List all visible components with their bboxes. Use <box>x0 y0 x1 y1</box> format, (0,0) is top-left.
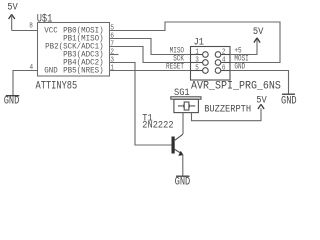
svg-text:GND: GND <box>4 95 20 107</box>
svg-text:BUZZERPTH: BUZZERPTH <box>204 103 251 115</box>
svg-text:3: 3 <box>195 56 199 63</box>
svg-text:4: 4 <box>222 56 226 63</box>
svg-text:5V: 5V <box>253 25 264 37</box>
power 5V top-left <box>7 1 18 31</box>
wire GND right: J1 pin6 to ground <box>230 71 289 94</box>
ground right <box>281 94 297 107</box>
wire buzzer right pin to 5V <box>192 108 262 120</box>
J1 pad 4 <box>215 56 230 65</box>
svg-text:U$1: U$1 <box>37 13 53 25</box>
svg-text:4: 4 <box>30 64 34 71</box>
wire RESET net: pin1 to J1 pin5 <box>110 70 191 72</box>
wire stub pin2 <box>110 54 119 56</box>
svg-text:2N2222: 2N2222 <box>142 119 173 131</box>
svg-text:8: 8 <box>29 22 33 29</box>
buzzer SG1 <box>171 87 251 115</box>
transistor T1 2N2222 <box>142 112 183 156</box>
J1 pad 5 <box>191 64 209 73</box>
power 5V bottom <box>256 94 267 109</box>
power 5V right <box>253 25 264 42</box>
wire GND pin 4 to ground <box>13 71 37 96</box>
svg-text:5: 5 <box>195 64 199 71</box>
wire emitter to ground <box>182 155 184 176</box>
J1 pad 1 <box>191 48 209 57</box>
wire MISO net: pin6 to J1 pin1 <box>110 39 191 55</box>
IC U$1 ATTINY85 box <box>36 13 110 92</box>
svg-text:GND: GND <box>175 176 191 188</box>
wire +5 to 5V arrow <box>230 38 257 55</box>
svg-text:1: 1 <box>195 48 199 55</box>
svg-text:ATTINY85: ATTINY85 <box>36 80 78 92</box>
J1 pad 2 <box>215 48 230 57</box>
svg-text:2: 2 <box>222 48 226 55</box>
ground bottom <box>175 176 191 188</box>
wire SCK net: pin7 to J1 pin3 <box>110 47 191 63</box>
svg-text:PB5(NRES): PB5(NRES) <box>63 66 103 75</box>
svg-text:VCC: VCC <box>44 26 58 35</box>
connector J1 <box>191 36 281 93</box>
svg-text:6: 6 <box>222 64 226 71</box>
svg-text:GND: GND <box>281 94 297 106</box>
svg-text:RESET: RESET <box>166 63 184 72</box>
ground left <box>4 95 20 107</box>
wire 5V to VCC pin 8 <box>12 30 37 32</box>
svg-text:5V: 5V <box>7 1 18 13</box>
J1 pad 6 <box>215 64 230 73</box>
wire buzzer left pin to collector <box>182 113 184 134</box>
wire MOSI net: pin5 to J1 pin4 via top <box>110 22 281 63</box>
svg-text:GND: GND <box>44 66 58 75</box>
svg-text:AVR_SPI_PRG_6NS: AVR_SPI_PRG_6NS <box>191 80 281 93</box>
wire pin3 to transistor base <box>110 63 172 146</box>
svg-text:5V: 5V <box>256 94 267 106</box>
svg-text:J1: J1 <box>194 36 205 48</box>
J1 pad 3 <box>191 56 209 65</box>
